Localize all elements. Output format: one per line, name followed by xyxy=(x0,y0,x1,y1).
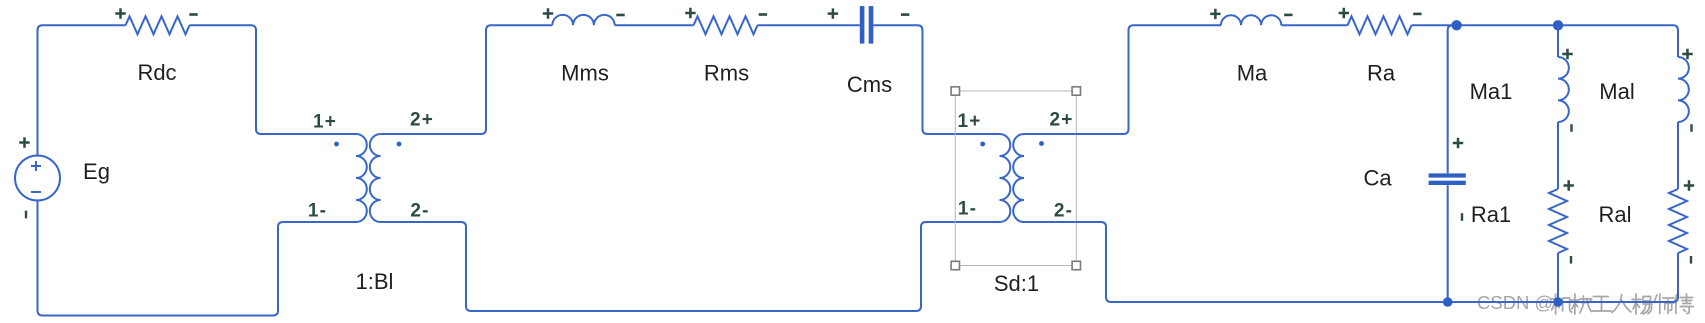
wire Rms to capacitor Cms xyxy=(758,24,860,26)
port label + of Eg xyxy=(19,137,29,147)
wire branch Mal inductor xyxy=(1678,57,1689,122)
svg-text:Ral: Ral xyxy=(1598,202,1631,227)
port label + of Ma xyxy=(1210,9,1220,19)
port label + of Ral xyxy=(1684,180,1694,190)
port label - of Mal xyxy=(1690,124,1692,132)
svg-text:Mal: Mal xyxy=(1599,79,1634,104)
port label - of Rms xyxy=(759,13,767,16)
svg-text:Ma1: Ma1 xyxy=(1470,79,1513,104)
transformer U1 secondary winding xyxy=(370,134,381,222)
svg-text:2-: 2- xyxy=(1054,201,1073,222)
wire branch Ma1/Ra1 upper xyxy=(1557,25,1559,57)
wire Ra to top-right corner xyxy=(1412,24,1674,26)
wire from Rdc to transformer U1 terminal 1+ xyxy=(190,25,357,134)
port label - of Cms xyxy=(901,13,909,16)
port label - of Mms xyxy=(616,14,624,17)
wire Ral to bottom rail corner xyxy=(1673,253,1678,302)
selection handle xyxy=(951,87,959,95)
port label + of Mal xyxy=(1682,49,1692,59)
svg-text:2-: 2- xyxy=(410,201,429,222)
resistor Ra xyxy=(1348,16,1412,34)
wire from U2 terminal 2+ to inductor Ma xyxy=(1024,25,1221,134)
transformer U1 primary winding xyxy=(356,134,367,222)
transformer U2 secondary dot xyxy=(1039,141,1044,146)
port label - of Ra1 xyxy=(1570,256,1572,264)
node junction dot B top xyxy=(1553,20,1563,30)
transformer U2 secondary winding xyxy=(1013,134,1024,222)
wire from U1 terminal 2- to U2 terminal 1- (bottom rail) xyxy=(381,222,1000,311)
wire from Eg top to resistor Rdc xyxy=(38,25,126,155)
svg-text:1+: 1+ xyxy=(957,111,981,132)
selection rectangle around transformer U2 xyxy=(955,91,1076,266)
port label - of Ca xyxy=(1461,213,1463,221)
svg-text:Mms: Mms xyxy=(561,61,609,86)
wire Ra1 to bottom rail xyxy=(1557,253,1559,302)
selection handle xyxy=(1072,261,1080,269)
watermark CJK glyphs xyxy=(1551,294,1573,314)
wire Mal to Ral xyxy=(1677,122,1679,189)
voltage source Eg xyxy=(15,156,60,201)
capacitor Cms xyxy=(860,6,865,44)
wire Mms to Rms xyxy=(615,24,694,26)
port label - of Eg xyxy=(25,211,27,219)
resistor Rdc xyxy=(126,16,190,34)
node junction dot B bottom xyxy=(1553,297,1563,307)
transformer U2 primary dot xyxy=(980,142,985,147)
port label - of Ra xyxy=(1413,13,1421,16)
port label + of Ra xyxy=(1339,8,1349,18)
transformer U1 secondary dot xyxy=(397,142,402,147)
svg-text:2+: 2+ xyxy=(410,110,434,131)
capacitor Ca xyxy=(1429,173,1466,177)
svg-text:1+: 1+ xyxy=(313,112,337,133)
svg-text:Cms: Cms xyxy=(847,72,892,97)
svg-text:Ma: Ma xyxy=(1237,61,1268,86)
wire from U1 terminal 2+ to inductor Mms xyxy=(381,25,553,134)
port label + of Mms xyxy=(543,8,553,18)
top right corner wire down to branch Mal xyxy=(1673,25,1678,57)
port label + of Ma1 xyxy=(1562,49,1572,59)
inductor Ma xyxy=(1221,15,1281,25)
wire Ma to Ra xyxy=(1281,24,1347,26)
port label + of Ra1 xyxy=(1564,180,1574,190)
svg-text:1-: 1- xyxy=(308,201,327,222)
wire from U2 terminal 2- along bottom rail to right xyxy=(1024,222,1673,302)
selection handle xyxy=(1072,87,1080,95)
inductor Mms xyxy=(552,15,614,25)
selection handle xyxy=(951,261,959,269)
svg-text:Rms: Rms xyxy=(704,61,749,86)
node junction dot A top xyxy=(1451,20,1461,30)
resistor Rms xyxy=(694,16,758,34)
svg-text:Ra: Ra xyxy=(1367,61,1396,86)
port label + of Rdc xyxy=(115,8,125,18)
port label + of Cms xyxy=(828,8,838,18)
svg-text:1-: 1- xyxy=(958,199,977,220)
resistor Ra1 xyxy=(1549,189,1567,253)
svg-text:Rdc: Rdc xyxy=(137,60,176,85)
svg-text:Ca: Ca xyxy=(1363,166,1392,191)
resistor Ral xyxy=(1669,189,1687,253)
port label - of Ma1 xyxy=(1570,124,1572,132)
port label - of Rdc xyxy=(189,13,197,16)
port label - of Ma xyxy=(1284,14,1292,17)
svg-text:Sd:1: Sd:1 xyxy=(994,271,1039,296)
port label - of Ral xyxy=(1690,256,1692,264)
inductor Ma1 xyxy=(1558,57,1569,122)
node junction dot A bottom xyxy=(1443,297,1453,307)
transformer U1 primary dot xyxy=(334,142,339,147)
wire Ma1 to Ra1 xyxy=(1557,122,1559,189)
wire from Cms to transformer U2 terminal 1+ xyxy=(873,25,999,134)
port label + of Rms xyxy=(685,8,695,18)
svg-text:Eg: Eg xyxy=(83,159,110,184)
transformer U2 primary winding xyxy=(1000,134,1011,222)
wire capacitor Ca branch xyxy=(1448,25,1453,302)
svg-text:1:Bl: 1:Bl xyxy=(356,269,394,294)
wire from Eg bottom to transformer U1 terminal 1- xyxy=(38,201,357,316)
svg-text:Ra1: Ra1 xyxy=(1471,202,1511,227)
port label + of Ca xyxy=(1453,138,1463,148)
svg-text:2+: 2+ xyxy=(1049,110,1073,131)
